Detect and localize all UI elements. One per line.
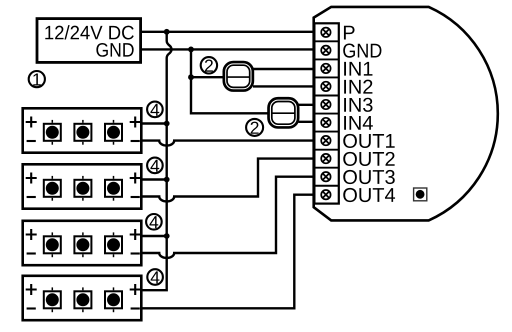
callout 4 (strip 4) — [147, 269, 163, 285]
callout 4 (strip 3) — [146, 214, 162, 230]
callout 4 (strip 1) — [147, 102, 163, 118]
terminal screw P — [321, 28, 330, 37]
terminal screw IN4 — [321, 118, 330, 127]
LED D32 — [74, 232, 91, 257]
pin label GND — [343, 44, 381, 58]
pin label OUT4 — [343, 188, 395, 202]
callout 2 (button S2) — [246, 119, 263, 136]
wire: strip3 + stub — [141, 235, 166, 237]
LED D41 — [44, 287, 61, 312]
wire: +V vertical bus to LED strips (hops over GND wire) — [141, 32, 171, 290]
junction: GND branch — [188, 47, 194, 53]
LED D12 — [74, 120, 91, 145]
wire: strip4 - to OUT4 — [141, 195, 315, 309]
wire: strip3 - to OUT3 (dips under +V bus) — [141, 177, 315, 258]
wire: button S2 to IN4 — [299, 121, 316, 123]
LED D11 — [44, 120, 61, 145]
pin label P — [344, 26, 355, 40]
wire: GND from supply to terminal GND — [141, 48, 316, 50]
LED D33 — [105, 232, 122, 257]
pin label IN2 — [344, 80, 372, 94]
LED strip 4 — [23, 276, 142, 320]
terminal screw GND — [321, 46, 330, 55]
callout 1 (power supply) — [29, 71, 45, 87]
wire: button S1 to IN1 — [253, 68, 316, 70]
terminal screw OUT4 — [321, 190, 330, 199]
pushbutton S2 — [269, 98, 299, 127]
LED strip 3 — [23, 221, 142, 265]
wire: strip1 + stub — [141, 122, 166, 124]
LED D13 — [105, 120, 122, 145]
pin label IN3 — [344, 98, 372, 112]
terminal block J1 — [313, 23, 339, 203]
junction: +V branch — [164, 29, 170, 35]
wire: +V from supply to terminal P — [141, 31, 316, 33]
wire: button S2 to IN3 — [299, 104, 316, 106]
wire: GND to button S1 — [191, 76, 224, 78]
pin label OUT2 — [343, 152, 394, 166]
junction: strip1 + tap — [164, 121, 170, 127]
junction: strip3 + tap — [164, 233, 170, 239]
controller device outline U1 — [314, 7, 498, 221]
LED D23 — [105, 176, 122, 201]
LED D22 — [74, 176, 91, 201]
LED D43 — [105, 287, 122, 312]
terminal screw IN1 — [321, 64, 330, 73]
LED D21 — [44, 176, 61, 201]
callout 2 (button S1) — [201, 57, 217, 73]
wire: button S1 to IN2 — [253, 85, 316, 87]
terminal screw IN3 — [321, 100, 330, 109]
terminal screw IN2 — [321, 82, 330, 91]
pin label IN1 — [344, 62, 372, 76]
terminal screw OUT2 — [321, 154, 330, 163]
callout 4 (strip 2) — [147, 158, 163, 174]
pushbutton S1 — [224, 62, 253, 91]
LED strip 1 — [23, 108, 142, 152]
pin label IN4 — [344, 116, 373, 130]
terminal screw OUT3 — [321, 172, 330, 181]
LED D31 — [44, 232, 61, 257]
pin label OUT3 — [343, 170, 395, 184]
wire: strip2 + stub — [141, 178, 166, 180]
pin label OUT1 — [343, 134, 394, 148]
junction: button S1 tap — [188, 74, 194, 80]
wire: strip1 - to OUT1 (dips under +V bus) — [141, 141, 315, 146]
wire: strip2 - to OUT2 (dips under +V bus) — [141, 159, 315, 202]
power supply box 12/24V DC — [37, 19, 141, 63]
wire: GND vertical bus to buttons — [191, 49, 268, 113]
indicator LED D1 on controller — [414, 188, 427, 201]
terminal screw OUT1 — [321, 136, 330, 145]
LED D42 — [74, 287, 91, 312]
LED strip 2 — [23, 164, 142, 208]
junction: strip2 + tap — [164, 177, 170, 183]
